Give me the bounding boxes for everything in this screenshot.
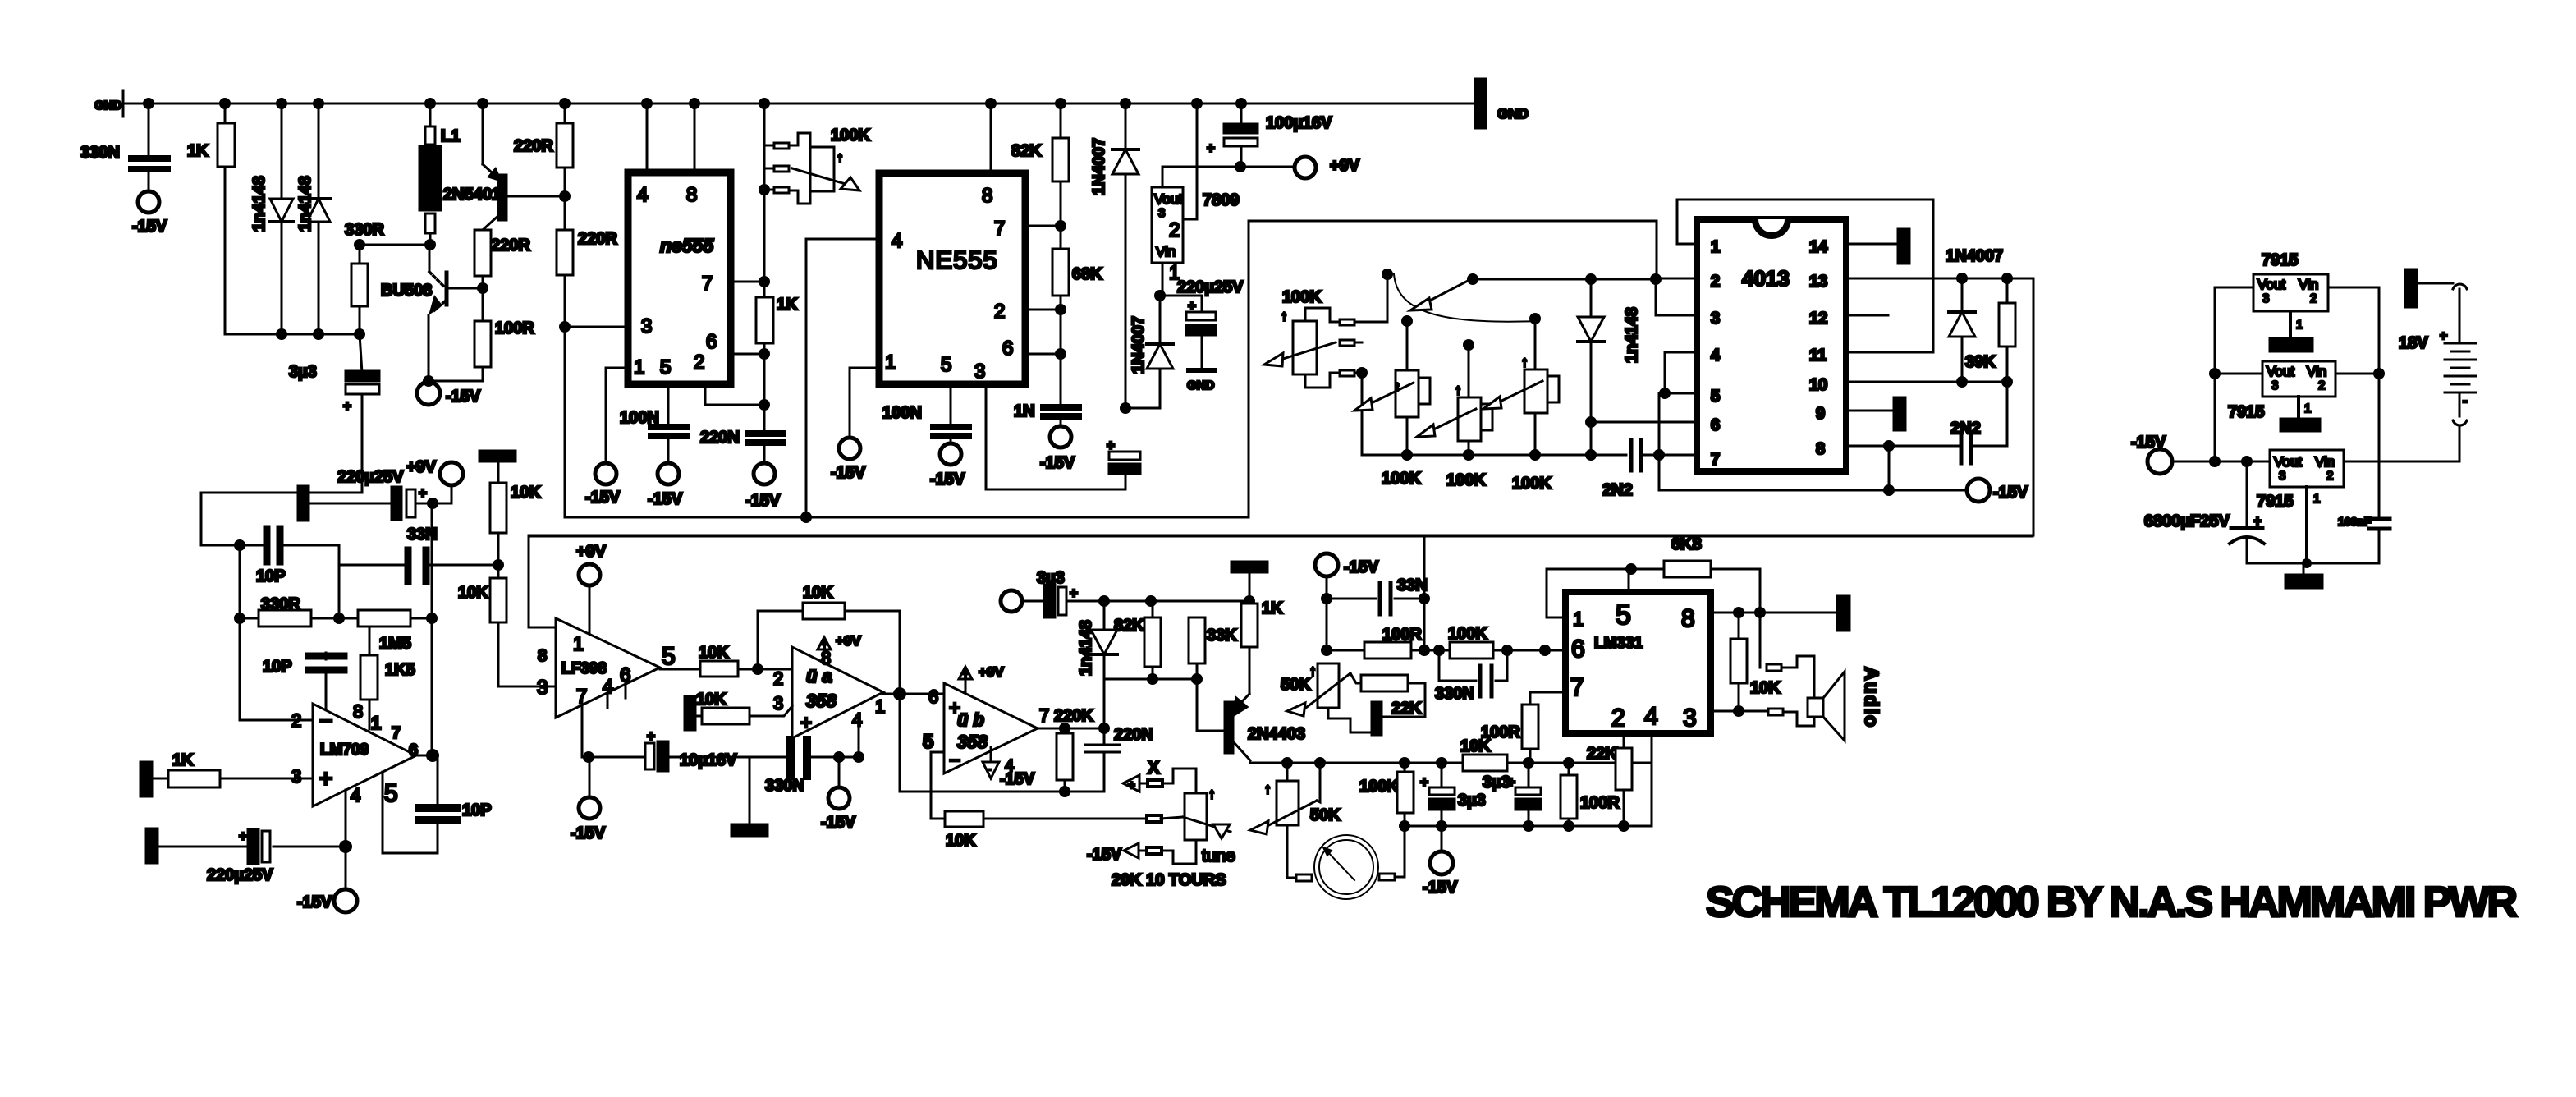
- ic LM331 box: [1565, 592, 1711, 733]
- svg-text:8: 8: [1681, 605, 1695, 632]
- wire LM709 pin3 input: [220, 778, 313, 780]
- wire 4013 pin12 stub: [1846, 314, 1888, 317]
- svg-text:1: 1: [1573, 608, 1584, 631]
- wire 7809 Vin down: [1162, 263, 1164, 296]
- svg-text:3µ3: 3µ3: [289, 363, 317, 381]
- svg-text:2N2: 2N2: [1602, 481, 1633, 499]
- svg-text:3: 3: [1158, 206, 1165, 220]
- wire 4013 pin1 loop to pin11: [1677, 200, 1933, 352]
- op-amp ua358 b: [944, 683, 1038, 773]
- wire speaker pad1: [1759, 613, 1762, 668]
- svg-text:7: 7: [392, 724, 401, 742]
- svg-text:3µ3: 3µ3: [1458, 792, 1486, 810]
- flag +9V (358b): [959, 667, 972, 679]
- ic 4013 box: [1697, 219, 1846, 471]
- svg-text:↑: ↑: [1264, 781, 1272, 796]
- terminal -15V under 330N: [138, 191, 159, 213]
- svg-text:7: 7: [702, 273, 713, 295]
- svg-text:10: 10: [1809, 376, 1827, 394]
- svg-text:↑: ↑: [837, 149, 844, 165]
- svg-text:-15V: -15V: [1040, 454, 1075, 472]
- terminal -15V (33N LM331): [1315, 553, 1338, 576]
- svg-text:-: -: [2463, 394, 2467, 408]
- junction dots on bus: [143, 98, 1247, 109]
- terminal -15V (330N): [838, 757, 841, 787]
- svg-text:10K: 10K: [458, 584, 488, 602]
- svg-text:7: 7: [1570, 674, 1584, 701]
- svg-text:3: 3: [1711, 310, 1720, 328]
- wire LM331 pin3 out: [1711, 710, 1768, 713]
- svg-text:1N4007: 1N4007: [1946, 247, 2003, 265]
- svg-text:33N: 33N: [1397, 576, 1428, 594]
- svg-text:5: 5: [660, 356, 671, 379]
- svg-text:+9V: +9V: [979, 664, 1004, 680]
- wiper arrow to top line: [1427, 280, 1469, 302]
- svg-text:-15V: -15V: [585, 489, 621, 507]
- terminal input bar (220u25V): [146, 828, 158, 863]
- ground bar (pin8): [1837, 596, 1849, 631]
- wire 7915 no1 vin: [2328, 287, 2379, 461]
- wire ne555 pin7 to 1K column: [731, 281, 764, 283]
- svg-text:-15V: -15V: [571, 824, 606, 842]
- svg-text:↑: ↑: [1208, 786, 1216, 801]
- wire NE555 pin1 to -15V: [850, 368, 879, 438]
- svg-text:X: X: [1148, 757, 1160, 778]
- svg-text:ne555: ne555: [660, 235, 714, 256]
- svg-text:5: 5: [941, 354, 951, 376]
- svg-text:5: 5: [384, 780, 398, 807]
- svg-text:50K: 50K: [1310, 806, 1341, 824]
- svg-text:1M5: 1M5: [379, 635, 411, 653]
- wire ne555 pin1 to -15V: [606, 368, 628, 462]
- svg-text:3µ3: 3µ3: [1483, 773, 1510, 792]
- svg-text:1n4148: 1n4148: [1077, 620, 1095, 676]
- wire 330R to L1 node: [360, 244, 430, 246]
- wire 100K pot column: [763, 103, 766, 297]
- terminal -15V 1N: [1050, 426, 1071, 448]
- wire long box top line: [529, 535, 2033, 538]
- svg-text:LM331: LM331: [1594, 635, 1643, 652]
- svg-text:220µ25V: 220µ25V: [207, 866, 273, 884]
- svg-text:Vin: Vin: [1156, 244, 1176, 259]
- svg-text:10K: 10K: [803, 584, 833, 602]
- svg-text:1K: 1K: [187, 142, 209, 160]
- svg-text:10K: 10K: [1460, 737, 1491, 755]
- svg-text:3: 3: [2262, 291, 2269, 305]
- svg-text:-15V: -15V: [831, 464, 866, 482]
- node GND left tick: [122, 90, 125, 117]
- svg-text:5: 5: [1616, 599, 1631, 631]
- wire NE555 pin4 to left: [806, 239, 879, 517]
- svg-text:8: 8: [821, 648, 831, 668]
- wire pot1 mid pad: [1354, 342, 1362, 344]
- wire 4013 pin10: [1846, 381, 2007, 383]
- svg-text:+: +: [1128, 778, 1135, 792]
- wire LF398 pin8: [529, 627, 556, 629]
- wire 7915 no2 vout: [2215, 373, 2262, 375]
- wire NE555 pin2 to column: [1025, 309, 1061, 311]
- op-amp LF398: [556, 618, 660, 718]
- wire LF398 pin7: [582, 700, 645, 757]
- wire 7915 no3 vin to battery: [2344, 461, 2459, 463]
- svg-text:220N: 220N: [1114, 726, 1153, 744]
- meter: [1287, 877, 1296, 879]
- svg-text:1: 1: [371, 713, 381, 733]
- svg-text:Vout: Vout: [2267, 364, 2294, 379]
- svg-text:100R: 100R: [1580, 794, 1620, 812]
- svg-text:2: 2: [2318, 379, 2325, 392]
- terminal -15V (LM709): [345, 847, 347, 889]
- svg-text:11: 11: [1809, 347, 1827, 365]
- flag +9V (358a): [818, 637, 831, 649]
- svg-text:Vin: Vin: [2299, 277, 2318, 292]
- svg-text:330N: 330N: [1435, 685, 1474, 703]
- svg-text:2: 2: [773, 668, 783, 689]
- svg-text:68K: 68K: [1072, 265, 1102, 283]
- op-amp U ne555 box: [628, 172, 731, 384]
- svg-text:10µ16V: 10µ16V: [680, 751, 737, 769]
- svg-text:3: 3: [773, 693, 783, 714]
- svg-text:13: 13: [1809, 273, 1827, 291]
- ground bar under 330N: [749, 757, 751, 826]
- diode 1N4007 b: [1159, 296, 1162, 408]
- svg-text:4: 4: [637, 184, 648, 206]
- svg-text:358: 358: [957, 732, 988, 752]
- svg-text:+9V: +9V: [406, 458, 437, 476]
- svg-text:4: 4: [892, 230, 902, 252]
- terminal -15V (4013): [1967, 479, 1990, 502]
- wire pots bottom bus: [1362, 454, 1626, 457]
- terminal +9V: [1295, 157, 1316, 178]
- wire pin4 drop: [1651, 733, 1653, 826]
- arc gang indicator: [1394, 274, 1537, 322]
- svg-text:4013: 4013: [1742, 266, 1790, 291]
- svg-text:330N: 330N: [80, 144, 120, 162]
- svg-text:5: 5: [923, 731, 933, 753]
- wire 4013 pin3 bracket: [1656, 278, 1697, 315]
- svg-text:1K: 1K: [777, 296, 798, 314]
- svg-text:LF398: LF398: [561, 660, 607, 677]
- svg-text:100N: 100N: [882, 404, 922, 422]
- svg-text:GND: GND: [1497, 106, 1529, 122]
- speaker: [1808, 698, 1823, 717]
- ground bar pin9: [1894, 397, 1905, 430]
- svg-text:+: +: [647, 728, 655, 744]
- svg-text:-15V: -15V: [745, 492, 781, 510]
- wire 4013 pin6: [1591, 421, 1697, 424]
- svg-text:Vout: Vout: [1154, 191, 1182, 207]
- svg-text:6: 6: [409, 741, 418, 760]
- svg-text:220R: 220R: [491, 236, 530, 255]
- svg-text:3: 3: [1683, 705, 1697, 732]
- wire NE555 pin3 down right: [986, 384, 1125, 489]
- svg-text:+9V: +9V: [1330, 157, 1360, 175]
- svg-text:220R: 220R: [514, 137, 553, 155]
- svg-text:5: 5: [662, 643, 676, 670]
- svg-text:4: 4: [852, 709, 862, 730]
- diode 1n4148 b: [318, 103, 320, 334]
- wire 1n4148-82K bottom: [1104, 678, 1197, 681]
- svg-text:220N: 220N: [700, 429, 740, 447]
- svg-text:SCHEMA TL12000 BY N.A.S HAMMAM: SCHEMA TL12000 BY N.A.S HAMMAMI PWR: [1706, 879, 2518, 926]
- svg-text:6800µF25V: 6800µF25V: [2144, 512, 2230, 530]
- battery hook top: [2453, 284, 2467, 289]
- svg-text:1: 1: [875, 696, 885, 717]
- svg-text:6: 6: [706, 331, 717, 353]
- svg-text:358: 358: [806, 691, 837, 711]
- ground bar (50K): [1372, 702, 1382, 735]
- wire 358a out to 358b pin6: [883, 693, 944, 695]
- svg-text:100K: 100K: [831, 126, 870, 145]
- svg-text:-15V: -15V: [930, 470, 965, 489]
- svg-text:10K: 10K: [946, 832, 976, 850]
- svg-text:↑: ↑: [1309, 663, 1317, 678]
- wire 358a out to bottom rail: [900, 694, 1104, 792]
- svg-text:10P: 10P: [462, 801, 492, 819]
- terminal -15V ne555 pin1: [595, 463, 616, 484]
- svg-text:3: 3: [641, 315, 652, 337]
- terminal input bar (1K): [140, 762, 152, 796]
- terminal -15V NE555 pin5: [940, 443, 961, 465]
- wire 4013 right loop down: [529, 278, 2033, 535]
- svg-text:10K: 10K: [696, 691, 727, 709]
- svg-text:4: 4: [1644, 703, 1658, 730]
- wire NE555 pin8 to bus: [990, 103, 992, 173]
- svg-text:2: 2: [1711, 273, 1720, 291]
- svg-text:1N4007: 1N4007: [1090, 138, 1108, 195]
- svg-text:50K: 50K: [1281, 676, 1311, 694]
- wire pots box left and top: [1249, 221, 1657, 517]
- svg-text:2N4403: 2N4403: [1248, 725, 1305, 743]
- svg-text:2: 2: [2326, 469, 2333, 483]
- svg-text:2: 2: [291, 710, 301, 731]
- svg-text:10P: 10P: [256, 567, 286, 585]
- svg-text:+: +: [2440, 329, 2447, 343]
- wire pot1 top pad to arc node: [1354, 274, 1387, 322]
- ground bar over 10K: [479, 451, 516, 461]
- wire NE555 pin7 to 82K column: [1025, 225, 1061, 227]
- wire feedback line y753: [240, 617, 259, 620]
- terminal -15V NE555 pin1: [839, 438, 860, 459]
- wire ne555 pin2 to column: [705, 384, 764, 405]
- ground bar 7915 no2: [2280, 419, 2320, 431]
- wire top line y340: [1473, 278, 1656, 281]
- svg-text:100K: 100K: [1282, 288, 1322, 306]
- diode 1n4148 a: [281, 103, 283, 334]
- svg-text:6K8: 6K8: [1671, 535, 1702, 553]
- svg-text:GND: GND: [1187, 379, 1215, 392]
- svg-text:8: 8: [353, 701, 363, 722]
- svg-text:6: 6: [1002, 337, 1013, 360]
- input terminal 3u3: [1001, 590, 1022, 612]
- svg-text:-15V: -15V: [1344, 558, 1379, 576]
- svg-text:-15V: -15V: [1993, 484, 2028, 502]
- diode 1n4148 (358b): [1103, 601, 1106, 679]
- wire top ground bus: [123, 103, 1478, 105]
- svg-text:2: 2: [1169, 219, 1180, 241]
- svg-text:2N5401: 2N5401: [443, 186, 501, 204]
- svg-text:2: 2: [994, 301, 1005, 323]
- svg-text:330R: 330R: [345, 221, 384, 239]
- svg-text:39K: 39K: [1965, 353, 1996, 371]
- flag -15V (358b pin4): [983, 762, 999, 778]
- svg-text:BU508: BU508: [381, 282, 432, 300]
- svg-text:1: 1: [885, 351, 896, 374]
- wire ne555 pin6 to column: [731, 353, 764, 356]
- wire 358b pin5 loop: [931, 752, 944, 819]
- wire battery top: [2417, 282, 2453, 285]
- wire 4013 pin13: [1846, 278, 2033, 280]
- svg-text:12: 12: [1809, 310, 1827, 328]
- wire -15V rail: [2172, 461, 2459, 463]
- svg-text:2: 2: [694, 351, 704, 374]
- terminal +9V (LF398): [579, 564, 600, 585]
- battery 18V terminal bar: [2405, 269, 2417, 307]
- svg-text:10P: 10P: [263, 658, 292, 676]
- svg-text:8: 8: [686, 184, 697, 206]
- svg-text:8: 8: [538, 647, 547, 665]
- svg-text:3: 3: [2271, 379, 2278, 392]
- svg-text:100µ16V: 100µ16V: [1266, 114, 1332, 132]
- svg-text:3: 3: [537, 677, 548, 699]
- svg-text:7: 7: [1039, 705, 1049, 726]
- svg-text:14: 14: [1809, 238, 1828, 256]
- svg-text:-15V: -15V: [132, 218, 167, 236]
- svg-text:ū b: ū b: [957, 709, 984, 730]
- svg-text:22K: 22K: [1391, 700, 1422, 718]
- svg-text:↑: ↑: [1455, 382, 1462, 397]
- wire LM709 output node: [416, 755, 438, 757]
- wire 33N drop column: [338, 545, 341, 618]
- wire LM331 pin7: [1530, 692, 1565, 705]
- svg-text:100nF: 100nF: [2338, 515, 2372, 528]
- terminal -15V (LF398): [589, 757, 591, 796]
- svg-text:+9V: +9V: [576, 543, 607, 561]
- svg-text:7915: 7915: [2262, 251, 2299, 269]
- svg-text:4: 4: [351, 785, 360, 806]
- svg-text:−: −: [319, 708, 333, 735]
- svg-text:1N4007: 1N4007: [1130, 316, 1148, 374]
- svg-text:-15V: -15V: [648, 490, 683, 508]
- svg-text:1K: 1K: [172, 751, 194, 769]
- svg-text:6: 6: [1571, 636, 1585, 663]
- wire left column to LM709 pin2: [239, 545, 241, 720]
- svg-text:NE555: NE555: [916, 246, 998, 274]
- wire 220R node down to bottom rail: [564, 327, 566, 517]
- svg-text:6: 6: [1711, 416, 1720, 434]
- svg-text:+: +: [239, 828, 247, 844]
- svg-text:100K: 100K: [1382, 470, 1421, 488]
- svg-text:GND: GND: [94, 99, 122, 112]
- wire 4013 pin9 to ground: [1846, 410, 1894, 412]
- svg-text:Vout: Vout: [2257, 277, 2285, 292]
- svg-text:20K 10 TOURS: 20K 10 TOURS: [1112, 871, 1226, 889]
- svg-text:22K: 22K: [1587, 745, 1617, 763]
- svg-text:33K: 33K: [1207, 627, 1237, 645]
- svg-text:7915: 7915: [2257, 493, 2294, 511]
- terminal bar (358a pin3): [685, 696, 695, 730]
- wire 4013 pin4-pin5 bracket: [1665, 352, 1697, 393]
- svg-text:1K5: 1K5: [385, 661, 415, 679]
- wire 4013 pin14 to ground: [1846, 243, 1898, 246]
- svg-text:+9V: +9V: [836, 633, 861, 649]
- regulator 7915 no2: [2262, 361, 2335, 397]
- terminal -15V under BU508: [417, 382, 440, 405]
- op-amp ua358 a: [792, 647, 883, 738]
- svg-text:100K: 100K: [1512, 475, 1552, 493]
- svg-text:-15V: -15V: [821, 814, 856, 832]
- svg-text:-15V: -15V: [1000, 770, 1035, 788]
- regulator 7915 no3: [2270, 450, 2344, 487]
- ground GND right bar: [1475, 79, 1486, 128]
- svg-text:1: 1: [2304, 402, 2311, 415]
- wire lower rail2: [1405, 825, 1652, 828]
- svg-text:220µ25V: 220µ25V: [1177, 278, 1244, 296]
- wire 358a pin4: [858, 721, 860, 757]
- svg-text:Audio: Audio: [1861, 667, 1882, 728]
- svg-text:ū a: ū a: [806, 666, 832, 686]
- battery hook bottom: [2453, 420, 2467, 425]
- wire 358b out: [1038, 728, 1104, 730]
- svg-text:82K: 82K: [1114, 617, 1144, 635]
- svg-text:1K: 1K: [1262, 599, 1283, 617]
- svg-text:Vout: Vout: [2274, 454, 2302, 470]
- svg-text:tune: tune: [1202, 847, 1235, 865]
- svg-text:10K: 10K: [1750, 679, 1781, 697]
- ground bar over 1K (2N4403): [1231, 562, 1267, 572]
- wire LM331 pin8 out: [1711, 612, 1837, 614]
- svg-text:3: 3: [291, 766, 301, 787]
- wire 100R feed: [1326, 599, 1328, 650]
- svg-text:7: 7: [1711, 451, 1720, 469]
- wire LF398 out to 358a pin2: [660, 668, 700, 671]
- wire 3u3 to LM709 input net: [201, 492, 362, 494]
- svg-text:−: −: [949, 750, 960, 772]
- svg-text:Vin: Vin: [2307, 364, 2326, 379]
- terminal +9V (220u): [440, 462, 463, 485]
- svg-text:1N: 1N: [1014, 402, 1035, 420]
- pin stubs 4 6: [607, 693, 609, 708]
- wire pin5 to pin7 net: [1659, 393, 1665, 455]
- op-amp U NE555 box: [879, 173, 1025, 384]
- svg-text:8: 8: [1816, 440, 1825, 458]
- svg-text:5: 5: [1711, 388, 1720, 406]
- svg-text:↑: ↑: [1521, 354, 1529, 369]
- terminal -15V 220N: [754, 463, 775, 484]
- diode 1n4148 (4013): [1590, 279, 1593, 455]
- svg-text:6: 6: [928, 686, 938, 707]
- svg-text:100K: 100K: [1446, 471, 1486, 489]
- svg-text:100R: 100R: [495, 319, 534, 337]
- svg-text:2: 2: [2310, 291, 2317, 305]
- regulator 7809: [1152, 187, 1183, 263]
- svg-text:4: 4: [1711, 347, 1721, 365]
- svg-text:9: 9: [1816, 405, 1825, 423]
- wire pot1 bottom pad to bus: [1354, 373, 1362, 455]
- svg-text:-15V: -15V: [1423, 879, 1458, 897]
- svg-text:-15V: -15V: [1087, 846, 1122, 864]
- wire psu bottom rail: [2247, 562, 2379, 565]
- ground GND under 220u25V: [1189, 368, 1215, 373]
- svg-text:1n4148: 1n4148: [1623, 307, 1641, 363]
- svg-text:1: 1: [2313, 492, 2320, 506]
- svg-text:10K: 10K: [511, 484, 541, 502]
- svg-text:1: 1: [573, 633, 584, 655]
- svg-text:1n4148: 1n4148: [296, 176, 314, 232]
- svg-text:7: 7: [994, 218, 1005, 240]
- wire 7915 no2 vin: [2335, 373, 2379, 375]
- svg-text:220K: 220K: [1054, 707, 1093, 725]
